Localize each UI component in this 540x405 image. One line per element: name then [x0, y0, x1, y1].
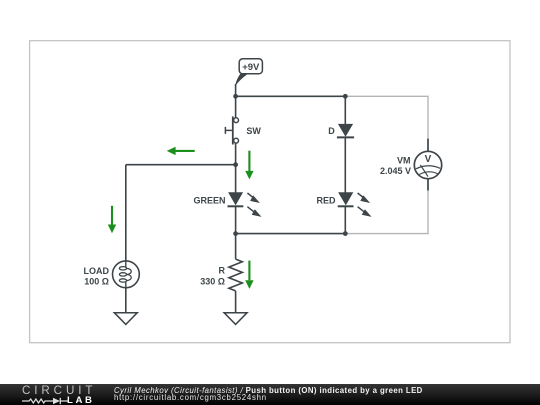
current arrow to LOAD branch (left)	[167, 147, 195, 155]
current arrow below SW	[245, 151, 253, 180]
voltmeter VM	[380, 151, 442, 178]
LED GREEN	[193, 192, 261, 217]
logo squiggle: resistor + diode	[20, 396, 72, 405]
svg-text:GREEN: GREEN	[193, 195, 225, 205]
svg-text:RED: RED	[316, 195, 336, 205]
node at +9V rail	[233, 94, 238, 99]
wire top rail left (node to D branch)	[236, 95, 346, 97]
svg-text:+9V: +9V	[242, 62, 260, 73]
diode D	[328, 124, 354, 137]
node below SW	[233, 162, 238, 167]
wire SW to GREEN LED	[235, 143, 237, 193]
wire node to LOAD branch	[126, 164, 236, 166]
current arrow beside R	[245, 261, 253, 289]
wire R to ground	[235, 291, 237, 313]
svg-text:SW: SW	[246, 126, 261, 136]
svg-text:LOAD: LOAD	[84, 266, 110, 276]
svg-text:V: V	[425, 154, 432, 165]
LED RED	[316, 192, 371, 217]
ground (LOAD)	[114, 313, 137, 325]
svg-text:100 Ω: 100 Ω	[84, 276, 109, 286]
current arrow left branch down	[108, 206, 116, 233]
wire left branch down to LOAD	[125, 165, 127, 261]
wire voltmeter bottom terminal	[427, 179, 429, 191]
svg-text:2.045 V: 2.045 V	[380, 166, 411, 176]
wire D to RED LED	[344, 137, 346, 192]
wire GREEN LED to R	[235, 207, 237, 260]
wire RED LED to bottom rail	[344, 207, 346, 234]
svg-text:R: R	[219, 266, 226, 276]
power flag +9V	[235, 59, 262, 85]
node top of D branch	[343, 94, 348, 99]
wire LOAD to ground	[125, 288, 127, 313]
wire top rail right to voltmeter (gray, no current)	[345, 96, 428, 138]
resistor R 330	[200, 259, 242, 291]
wire D branch top	[344, 96, 346, 124]
pushbutton SW	[225, 116, 261, 144]
svg-text:330 Ω: 330 Ω	[200, 276, 225, 286]
wire +9V to SW	[235, 84, 237, 118]
ground (R)	[224, 313, 247, 325]
node bottom of RED branch	[343, 231, 348, 236]
lamp LOAD 100	[84, 261, 140, 288]
svg-text:D: D	[328, 126, 335, 136]
node below GREEN LED	[233, 231, 238, 236]
wire voltmeter bottom to node (gray, no current)	[345, 191, 428, 234]
wire voltmeter top terminal	[427, 139, 429, 152]
wire bottom rail (GREEN node to RED branch)	[236, 233, 346, 235]
svg-text:VM: VM	[397, 156, 411, 166]
